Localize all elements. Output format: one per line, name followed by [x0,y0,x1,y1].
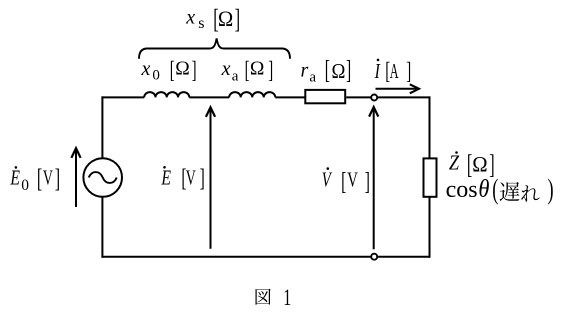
svg-text:s: s [198,15,204,32]
load impedance Z (box) [424,158,437,196]
svg-text:]: ] [192,57,197,83]
svg-text:a: a [232,69,239,85]
svg-text:[: [ [341,168,346,196]
svg-text:[: [ [170,57,175,83]
svg-text:(: ( [492,174,498,206]
svg-text:]: ] [365,168,370,196]
label x0 [ohm] [141,57,197,84]
inductor x0 (4 humps) [144,92,189,97]
brace xs (over both inductors) [139,38,290,58]
svg-text:Ω: Ω [250,59,265,80]
svg-text:Ω: Ω [332,60,346,83]
svg-text:1: 1 [283,285,291,311]
svg-text:0: 0 [152,68,160,84]
svg-text:]: ] [55,164,60,193]
label E0 [V] with dot [10,164,61,194]
label ra [ohm] [301,56,352,86]
wire: top segment 2 (between inductors) [189,96,229,98]
svg-text:r: r [301,59,309,81]
svg-text:x: x [141,58,151,80]
svg-text:]: ] [406,58,411,84]
svg-text:V: V [186,166,196,190]
arrow V (phasor arrow, up) [369,107,378,249]
AC source E0 (circle) [83,158,122,197]
svg-text:): ) [548,174,554,206]
svg-text:[: [ [325,56,330,85]
inductor xa (4 humps) [229,92,275,97]
wire: right vertical upper (top-right corner to load Z) [429,96,431,158]
svg-text:[: [ [37,164,42,193]
svg-text:x: x [185,7,195,29]
label V [V] with dot [322,167,370,195]
svg-text:a: a [309,69,316,85]
svg-text:Ω: Ω [175,59,190,80]
caption kanji zu (figure) [256,289,271,305]
arrow E (phasor arrow, up) [206,107,215,248]
svg-text:E: E [10,166,21,190]
wire: left vertical lower (source bottom to bottom-left corner) [101,197,103,258]
svg-text:V: V [322,168,333,191]
svg-text:Ω: Ω [218,6,233,31]
wire: top segment 5 (top terminal node to top-right corner) [377,96,431,98]
resistor ra (box) [305,90,345,103]
terminal node top (open circle) [371,95,377,101]
svg-text:]: ] [346,56,351,85]
label cos theta [446,176,490,203]
svg-text:Z: Z [449,151,460,174]
svg-text:]: ] [235,4,240,34]
wire: bottom segment 1 (bottom-left corner to bottom terminal node) [101,256,371,258]
label I [A] with dot [374,58,412,84]
wire: right vertical lower (load Z to bottom-right corner) [429,197,431,258]
svg-text:]: ] [200,165,205,193]
label E [V] with dot [161,165,205,193]
svg-text:A: A [390,59,399,82]
wire: top segment 1 (top-left corner to inductor x0) [101,96,144,98]
wire: top segment 3 (inductor xa to resistor ra) [275,96,305,98]
svg-text:x: x [221,58,231,80]
label Z [ohm] with dot [449,149,495,179]
label xs [ohm] [185,4,240,34]
svg-text:E: E [161,166,172,190]
svg-text:cos: cos [446,177,478,203]
label kana re (of okure) [521,185,539,202]
svg-text:V: V [43,166,53,190]
svg-text:Ω: Ω [472,152,487,177]
svg-text:I: I [374,60,381,84]
wire: bottom segment 2 (bottom terminal node to bottom-right corner) [377,256,431,258]
wire: top segment 4 (resistor ra to top terminal node) [346,96,371,98]
svg-text:θ: θ [478,176,489,203]
terminal node bottom (open circle) [371,254,377,260]
svg-text:]: ] [268,57,273,83]
svg-text:[: [ [245,57,250,83]
AC source sine wave [89,172,117,183]
label xa [ohm] [221,57,274,85]
arrow E0 (phasor arrow, up) [71,148,80,207]
label kanji osoi (of okure) [500,182,520,201]
svg-text:V: V [347,168,358,191]
wire: left vertical upper (top-left corner to source top) [101,96,103,158]
arrow I (current arrow, right) [376,84,419,93]
svg-text:0: 0 [21,177,29,194]
